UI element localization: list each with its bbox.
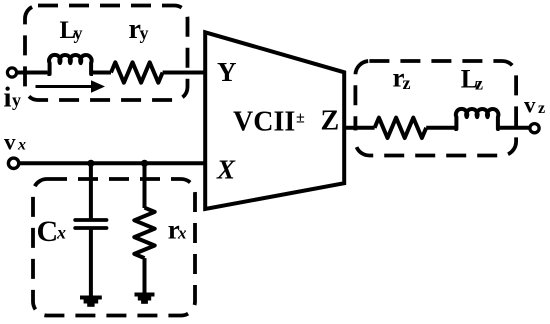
- svg-text:y: y: [12, 90, 21, 110]
- inductor Lz: [455, 109, 500, 129]
- svg-text:z: z: [538, 100, 545, 117]
- resistor rx: [134, 208, 154, 258]
- resistor rz: [375, 118, 427, 138]
- capacitor Cx plates: [75, 218, 106, 222]
- svg-text:i: i: [4, 82, 12, 114]
- svg-text:z: z: [475, 73, 483, 93]
- svg-text:v: v: [524, 93, 536, 118]
- svg-text:X: X: [216, 155, 236, 185]
- terminal iy: [7, 68, 16, 77]
- wire junction to Cx top plate: [89, 163, 93, 219]
- svg-text:y: y: [74, 23, 83, 43]
- dashed box around Ly and ry: [25, 6, 188, 101]
- wire Z output: [346, 126, 375, 130]
- svg-text:x: x: [17, 136, 26, 153]
- svg-text:x: x: [177, 224, 187, 243]
- svg-text:±: ±: [296, 110, 305, 127]
- terminal vz: [530, 124, 539, 133]
- wire Ly to ry: [91, 71, 111, 75]
- dashed box around Cx and rx: [33, 179, 195, 316]
- wire ry to Y pin: [163, 71, 205, 75]
- wire Cx bottom plate to ground: [89, 228, 93, 296]
- node junction Cx: [87, 160, 94, 167]
- svg-text:x: x: [56, 222, 66, 242]
- svg-text:VCII: VCII: [233, 107, 295, 138]
- resistor ry: [111, 62, 163, 82]
- svg-text:Z: Z: [321, 106, 340, 137]
- wire junction to rx: [143, 163, 147, 208]
- ground under Cx: [80, 296, 102, 307]
- svg-text:Y: Y: [217, 57, 237, 87]
- svg-text:v: v: [4, 130, 16, 155]
- wire rx to ground: [143, 258, 147, 293]
- ground under rx: [135, 293, 155, 304]
- op-amp block VCII trapezoid: [205, 32, 344, 209]
- wire Lz to vz terminal: [498, 126, 529, 130]
- wire Y input: [17, 71, 48, 75]
- svg-text:z: z: [403, 73, 411, 93]
- dashed box around rz and Lz: [355, 61, 516, 156]
- wire X input: [20, 161, 205, 165]
- svg-text:C: C: [37, 215, 59, 248]
- current arrow iy: [36, 85, 95, 88]
- terminal vx: [8, 158, 18, 168]
- svg-text:y: y: [140, 23, 149, 43]
- wire rz to Lz: [426, 126, 454, 130]
- inductor Ly: [48, 55, 94, 74]
- node junction rx: [141, 160, 148, 167]
